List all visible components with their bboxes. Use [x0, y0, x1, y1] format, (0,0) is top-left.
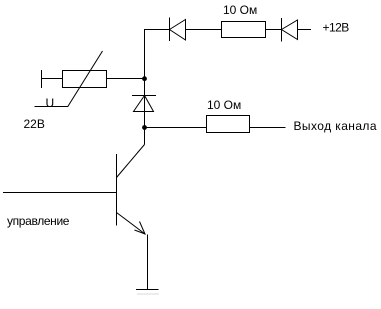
transistor VT1 base bar — [116, 154, 118, 226]
svg-text:Выход канала: Выход канала — [294, 119, 377, 133]
wire: varistor to node A — [107, 78, 145, 80]
wire: emitter to ground — [147, 235, 149, 290]
wire: +12V rail top horizontal, corner to diode VD1 — [145, 30, 170, 80]
varistor RU1 foot bar — [35, 106, 69, 108]
wire: terminal to varistor body — [42, 78, 63, 80]
varistor RU1 body — [63, 71, 107, 88]
transistor VT1 emitter arrowhead — [135, 222, 146, 235]
diode VD3 cathode bar — [132, 95, 156, 97]
svg-text:10 Ом: 10 Ом — [223, 3, 257, 17]
node B junction dot — [142, 125, 147, 130]
wire: node B to resistor R2 — [145, 127, 207, 129]
transistor VT1 emitter lead — [117, 213, 146, 235]
transistor VT1 collector lead — [117, 145, 145, 178]
node A junction dot — [142, 76, 147, 81]
resistor R1 body — [222, 22, 266, 38]
varistor RU1 left terminal tick — [41, 70, 43, 88]
wire: control input to base — [3, 192, 117, 194]
wire: node A down through diode VD3 to node B — [144, 79, 146, 127]
wire: R1 to diode VD2 — [266, 29, 282, 31]
wire: VD1 to resistor R1 — [186, 29, 222, 31]
svg-text:22В: 22В — [24, 117, 45, 131]
svg-text:+12В: +12В — [323, 20, 350, 34]
diode VD2 triangle — [282, 20, 298, 40]
diode VD3 triangle — [134, 96, 154, 112]
varistor RU1 diagonal stroke — [68, 51, 103, 107]
svg-text:U: U — [46, 96, 55, 110]
resistor R2 body — [207, 116, 250, 133]
svg-text:управление: управление — [7, 214, 70, 228]
wire: node B down to transistor collector — [144, 128, 146, 145]
svg-text:10 Ом: 10 Ом — [207, 98, 241, 112]
wire: VD2 to +12V terminal — [298, 29, 312, 31]
diode VD1 triangle — [170, 20, 186, 41]
diode VD2 cathode bar — [281, 18, 283, 42]
ground symbol bar — [136, 289, 159, 291]
diode VD1 cathode bar — [169, 18, 171, 42]
ground symbol shadow line — [137, 293, 159, 295]
wire: R2 to output terminal — [250, 127, 286, 129]
